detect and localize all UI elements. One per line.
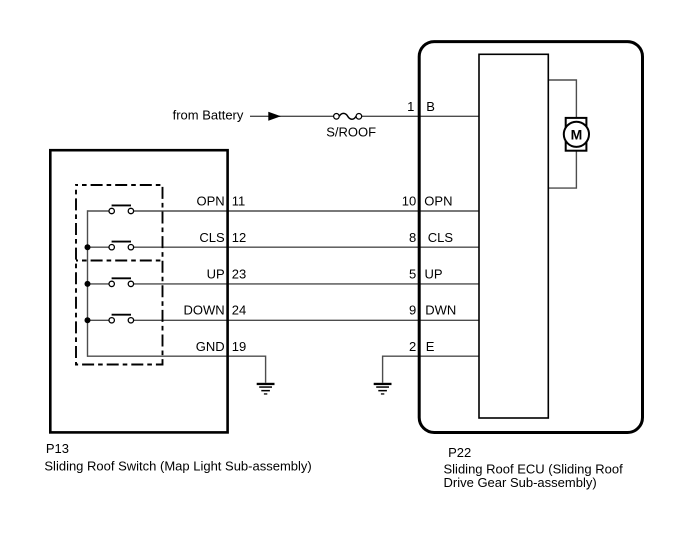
svg-text:2: 2 [409, 339, 416, 354]
svg-text:CLS: CLS [428, 230, 454, 245]
svg-text:from Battery: from Battery [173, 108, 244, 123]
svg-text:1: 1 [407, 99, 414, 114]
svg-text:24: 24 [232, 303, 246, 318]
svg-text:23: 23 [232, 267, 246, 282]
svg-text:Sliding Roof Switch (Map Light: Sliding Roof Switch (Map Light Sub-assem… [44, 458, 311, 473]
svg-text:11: 11 [232, 194, 246, 209]
svg-text:Drive Gear Sub-assembly): Drive Gear Sub-assembly) [444, 475, 597, 490]
svg-text:UP: UP [207, 267, 225, 282]
svg-text:P22: P22 [448, 445, 471, 460]
svg-text:12: 12 [232, 230, 246, 245]
svg-text:M: M [571, 126, 583, 142]
svg-text:UP: UP [425, 267, 443, 282]
svg-text:DWN: DWN [425, 303, 456, 318]
svg-text:B: B [426, 99, 435, 114]
svg-text:5: 5 [409, 267, 416, 282]
svg-text:DOWN: DOWN [184, 303, 225, 318]
svg-text:GND: GND [196, 339, 225, 354]
svg-text:S/ROOF: S/ROOF [326, 124, 376, 139]
svg-text:19: 19 [232, 339, 246, 354]
svg-text:8: 8 [409, 230, 416, 245]
svg-text:OPN: OPN [424, 194, 452, 209]
svg-text:CLS: CLS [199, 230, 225, 245]
svg-text:P13: P13 [46, 441, 69, 456]
svg-text:E: E [426, 339, 435, 354]
svg-text:OPN: OPN [197, 194, 225, 209]
svg-text:10: 10 [402, 194, 416, 209]
svg-text:9: 9 [409, 303, 416, 318]
